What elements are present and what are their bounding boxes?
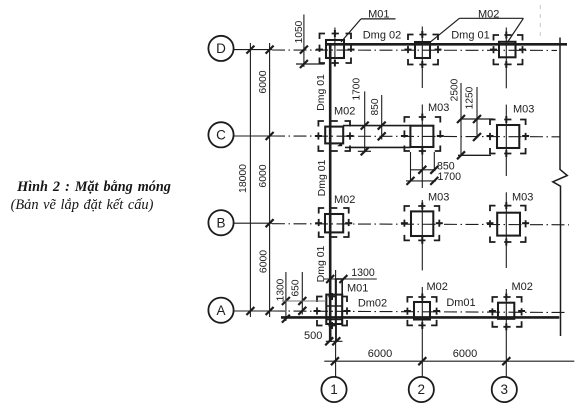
footing M02 at D3 xyxy=(490,32,526,68)
grid center line column 2 xyxy=(421,27,423,377)
foundation beam row D (thick) xyxy=(327,43,568,46)
figure caption xyxy=(4,179,184,196)
dimension 1300 horizontal at A1 xyxy=(324,267,377,283)
svg-text:Dm02: Dm02 xyxy=(358,298,387,310)
dimension line 6000 chain (left inner) xyxy=(258,43,274,317)
footing M01 at A1 (combined) xyxy=(314,279,351,329)
grid center line column 3 xyxy=(505,28,507,377)
svg-text:M01: M01 xyxy=(347,283,368,295)
grid center line row A xyxy=(234,311,568,313)
svg-text:1250: 1250 xyxy=(465,86,476,109)
svg-text:6000: 6000 xyxy=(259,250,270,273)
svg-text:6000: 6000 xyxy=(368,348,392,360)
svg-text:M03: M03 xyxy=(428,102,449,114)
svg-text:Dmg 01: Dmg 01 xyxy=(315,74,327,111)
foundation beam column 1 (thick, Dmg 01) xyxy=(329,44,332,342)
svg-text:Dmg 01: Dmg 01 xyxy=(316,159,328,196)
dimension 850 at C1 strip xyxy=(370,95,386,140)
svg-text:D: D xyxy=(216,41,226,56)
svg-text:1700: 1700 xyxy=(352,78,363,101)
svg-text:6000: 6000 xyxy=(453,348,477,360)
dimension 1250 at C3 xyxy=(465,86,482,141)
svg-text:1300: 1300 xyxy=(351,267,375,279)
svg-text:18000: 18000 xyxy=(238,164,249,193)
dimension line bottom 6000+6000 xyxy=(324,348,574,365)
grid center line row D xyxy=(234,49,557,52)
dimension 1700 below C2 xyxy=(406,171,461,185)
svg-text:M02: M02 xyxy=(427,281,448,293)
footing M03 at B3 xyxy=(487,202,530,245)
svg-text:3: 3 xyxy=(501,382,509,397)
svg-text:Dm01: Dm01 xyxy=(446,297,475,309)
grid center line column 1 (lower part + stub at D1) xyxy=(334,28,337,377)
right edge wall line with break symbol xyxy=(553,38,568,337)
dimension 850 below C2 xyxy=(411,152,455,182)
dimension 1300 vertical at A1 xyxy=(275,272,290,323)
dimension 1050 at D1 xyxy=(294,15,325,69)
svg-text:1: 1 xyxy=(330,382,338,397)
dimension 650 vertical at A1 xyxy=(282,272,326,315)
grid bubble B xyxy=(208,210,233,235)
footing M03 at C3 xyxy=(487,116,530,157)
grid bubble 2 xyxy=(409,377,434,402)
label M02 with leaders to D2 and D3 xyxy=(430,9,523,43)
grid center line row B xyxy=(234,223,569,225)
beam edge column 1 right xyxy=(335,279,337,342)
foundation beam row A (thick) xyxy=(281,316,559,319)
footing M02 at C1 xyxy=(315,121,354,151)
svg-text:Dmg 01: Dmg 01 xyxy=(315,245,327,282)
svg-text:6000: 6000 xyxy=(258,70,269,93)
footing M02 at A2 xyxy=(404,294,440,329)
svg-text:1300: 1300 xyxy=(275,278,286,301)
dimension 1700 at C1 strip xyxy=(352,78,371,156)
svg-text:Dmg 02: Dmg 02 xyxy=(363,30,402,42)
svg-text:1050: 1050 xyxy=(294,20,305,43)
svg-text:M02: M02 xyxy=(334,106,355,118)
footing M01 at D1 xyxy=(316,30,355,67)
svg-text:C: C xyxy=(216,127,226,142)
svg-text:A: A xyxy=(216,303,225,318)
svg-text:1700: 1700 xyxy=(438,171,462,183)
footing M02 at B1 xyxy=(315,208,352,237)
faint scan fold line xyxy=(539,5,541,36)
grid center line row C xyxy=(234,135,560,138)
grid bubble A xyxy=(208,298,233,323)
strip footing edge C1-C2 bottom xyxy=(345,146,411,148)
dimension line 18000 (left outer chain) xyxy=(238,43,254,317)
svg-text:6000: 6000 xyxy=(258,164,269,187)
footing M02 at D2 xyxy=(405,31,442,68)
svg-text:M03: M03 xyxy=(513,104,534,116)
svg-text:M02: M02 xyxy=(512,281,533,293)
grid bubble C xyxy=(208,122,233,147)
svg-text:850: 850 xyxy=(370,98,381,115)
strip footing edge C1-C2 top xyxy=(343,125,411,127)
grid bubble 3 xyxy=(492,377,517,402)
dimension 2500 at C3 xyxy=(449,78,493,159)
footing M03 at C2 xyxy=(401,114,444,155)
svg-text:Dmg 01: Dmg 01 xyxy=(451,30,490,42)
svg-text:2500: 2500 xyxy=(449,78,460,101)
grid bubble D xyxy=(208,36,233,61)
svg-text:M03: M03 xyxy=(428,191,449,203)
label M01 with leader to D1 xyxy=(341,9,396,42)
footing M03 at B2 xyxy=(401,203,443,244)
dimension 500 below A1 xyxy=(304,330,343,346)
svg-text:650: 650 xyxy=(291,279,302,296)
svg-text:M02: M02 xyxy=(334,194,355,206)
arrowhead at C1 square bottom-right xyxy=(337,142,342,146)
grid bubble 1 xyxy=(321,377,346,402)
svg-text:2: 2 xyxy=(418,382,426,397)
svg-text:M03: M03 xyxy=(512,192,533,204)
svg-text:500: 500 xyxy=(304,330,322,342)
svg-text:B: B xyxy=(216,215,225,230)
footing M02 at A3 xyxy=(489,294,525,331)
